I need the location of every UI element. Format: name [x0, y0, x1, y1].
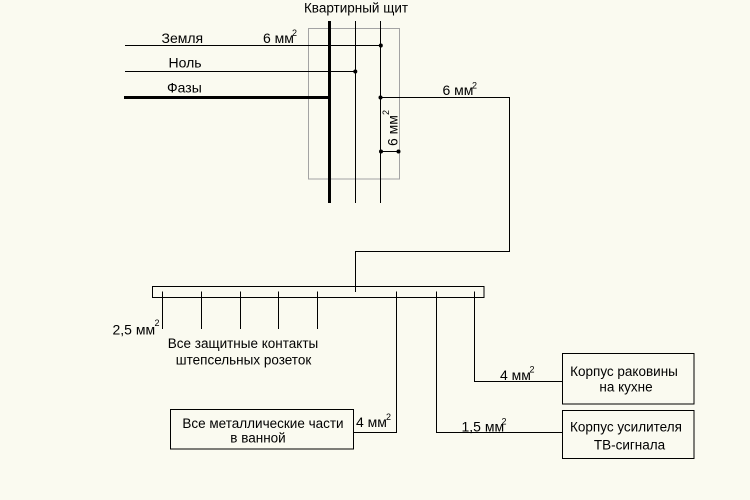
svg-text:2: 2: [381, 110, 391, 115]
socket tick wire 2: [201, 292, 203, 330]
wire: to bathroom (vertical): [396, 292, 398, 434]
wire: earth tap to the right: [381, 97, 510, 99]
wire: to bathroom (horizontal): [354, 432, 398, 434]
svg-text:2: 2: [472, 80, 477, 90]
node: earth junction: [379, 44, 383, 48]
dimension line with end dots: [381, 151, 400, 153]
svg-text:4 мм: 4 мм: [356, 414, 387, 430]
node: earth tap junction: [379, 96, 383, 100]
svg-text:6 мм: 6 мм: [263, 30, 294, 46]
svg-text:Фазы: Фазы: [167, 79, 202, 95]
svg-text:Квартирный щит: Квартирный щит: [304, 0, 408, 15]
svg-text:Все защитные контакты: Все защитные контакты: [168, 336, 318, 351]
wire: to kitchen sink (horizontal): [474, 381, 563, 383]
wire: to kitchen sink (vertical): [474, 292, 476, 382]
svg-text:2: 2: [530, 365, 535, 375]
socket tick wire 4: [278, 292, 280, 330]
wire: phases horizontal (thick): [124, 96, 331, 99]
ground bus bar: [153, 287, 485, 298]
wire: earth vertical conductor: [380, 21, 382, 203]
socket tick wire 1: [162, 292, 164, 330]
apartment panel enclosure (gray box): [309, 29, 400, 180]
svg-text:2,5 мм: 2,5 мм: [113, 322, 156, 338]
box: Корпус раковины на кухне: [563, 354, 695, 405]
svg-text:Корпус раковины: Корпус раковины: [570, 364, 678, 379]
wire: horizontal back to the left: [355, 251, 510, 253]
node: neutral junction: [353, 70, 357, 74]
svg-text:штепсельных розеток: штепсельных розеток: [176, 353, 312, 368]
box: Корпус усилителя ТВ-сигнала: [563, 411, 695, 459]
socket tick wire 3: [240, 292, 242, 330]
svg-text:Земля: Земля: [162, 30, 204, 46]
wire: to TV amplifier (horizontal): [436, 432, 563, 434]
svg-text:2: 2: [502, 416, 507, 426]
wire: right vertical drop: [509, 97, 511, 252]
svg-text:Все металлические части: Все металлические части: [182, 416, 343, 431]
svg-text:2: 2: [292, 28, 297, 38]
svg-text:Ноль: Ноль: [169, 54, 202, 70]
svg-text:в ванной: в ванной: [230, 431, 285, 446]
svg-text:6 мм: 6 мм: [385, 115, 401, 146]
socket tick wire 5: [317, 292, 319, 330]
svg-text:ТВ-сигнала: ТВ-сигнала: [594, 438, 666, 453]
svg-text:6 мм: 6 мм: [443, 82, 474, 98]
svg-text:2: 2: [386, 412, 391, 422]
wire: to TV amplifier (vertical): [436, 292, 438, 434]
svg-text:4 мм: 4 мм: [500, 367, 531, 383]
PE busbar (thick vertical line): [328, 21, 331, 203]
wire: neutral horizontal: [125, 71, 356, 73]
svg-text:1,5 мм: 1,5 мм: [462, 419, 505, 435]
box: Все металлические части в ванной: [171, 410, 354, 450]
svg-text:2: 2: [155, 318, 160, 328]
label: 6 мм2 (rotated): [381, 110, 401, 146]
wire: earth horizontal: [125, 45, 381, 47]
wire: drop into ground bus: [355, 252, 357, 293]
svg-text:Корпус усилителя: Корпус усилителя: [570, 420, 682, 435]
wire: neutral vertical conductor: [355, 21, 357, 203]
svg-text:на кухне: на кухне: [599, 380, 652, 395]
